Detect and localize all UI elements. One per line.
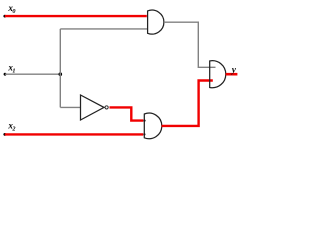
AND gate U3 (bottom) <box>144 113 162 139</box>
svg-text:1: 1 <box>12 67 15 74</box>
junction dot on x1 riser <box>59 72 63 76</box>
svg-text:y: y <box>231 65 237 75</box>
pin dot AND2 top input <box>143 120 145 122</box>
wire x1 to AND1 bottom input <box>60 28 147 30</box>
svg-text:2: 2 <box>11 125 15 132</box>
AND gate U1 (top) <box>148 10 164 34</box>
wire x1 horizontal to junction <box>5 73 60 75</box>
NOT bubble <box>105 106 108 109</box>
NOT gate U2 (inverter) <box>81 95 105 120</box>
wire output y (red) <box>226 73 238 76</box>
AND gate U4 (output gate) <box>210 61 226 88</box>
wire AND1 output to OR input (gray) <box>164 22 216 67</box>
node x0 (input dot) <box>3 15 6 18</box>
wire NOT output to AND2 top input (red) <box>110 107 144 120</box>
wire x0 to AND1 top input (red) <box>5 15 147 17</box>
wire x1 riser vertical <box>59 29 61 108</box>
wire x1 to NOT input <box>60 106 81 108</box>
pin dot AND2 bottom input <box>143 133 145 135</box>
node x2 (input dot) <box>3 133 6 136</box>
wire x2 to AND2 bottom input (red) <box>5 133 143 135</box>
svg-text:0: 0 <box>12 8 15 15</box>
node x1 (input dot) <box>4 73 7 76</box>
wire AND2 output to OR bottom input (red) <box>162 81 213 126</box>
